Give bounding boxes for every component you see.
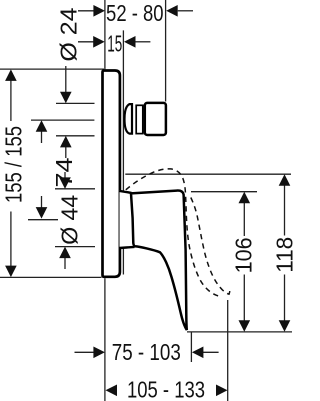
svg-text:15: 15 xyxy=(107,30,122,56)
svg-text:105 - 133: 105 - 133 xyxy=(127,377,205,401)
svg-text:Ø 24: Ø 24 xyxy=(56,7,82,61)
svg-text:106: 106 xyxy=(231,237,257,273)
svg-text:Ø 44: Ø 44 xyxy=(57,195,83,245)
svg-text:155 / 155: 155 / 155 xyxy=(1,126,27,203)
svg-text:74: 74 xyxy=(51,157,77,187)
svg-text:118: 118 xyxy=(272,237,297,273)
svg-text:75 - 103: 75 - 103 xyxy=(112,339,181,365)
svg-text:52 - 80: 52 - 80 xyxy=(106,0,164,26)
